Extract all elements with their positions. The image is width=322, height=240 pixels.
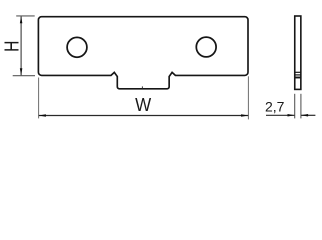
hole left (67, 37, 87, 57)
H arrow up (20, 16, 23, 23)
2,7 arrow pointing left (301, 114, 308, 117)
side view edge line 1 (294, 71, 301, 73)
svg-text:W: W (135, 94, 151, 115)
side view edge line 3 (294, 77, 301, 79)
side view edge line 2 (294, 74, 301, 76)
H dimension: extension line bottom (13, 75, 35, 77)
svg-text:H: H (1, 41, 23, 52)
svg-text:2,7: 2,7 (265, 99, 285, 115)
2,7 arrow pointing right (288, 114, 295, 117)
2,7 dimension line right segment (301, 114, 315, 116)
tab midpoint tick (141, 86, 144, 88)
side view plate (thin rectangle) (295, 16, 301, 89)
H dimension: extension line top (16, 15, 35, 17)
2,7 dimension: extension line right (300, 94, 302, 119)
W arrow left (39, 114, 46, 117)
H arrow down (20, 68, 23, 75)
hole right (196, 37, 216, 57)
W dimension: extension line right (247, 76, 249, 119)
W dimension line (39, 115, 248, 117)
2,7 dimension: extension line left (294, 94, 296, 119)
2,7 dimension line left segment (266, 114, 295, 116)
H dimension line (20, 17, 22, 76)
W dimension: extension line left (38, 78, 40, 119)
W arrow right (241, 114, 248, 117)
plate outline (front view with bottom tab and relief notches) (38, 17, 248, 89)
